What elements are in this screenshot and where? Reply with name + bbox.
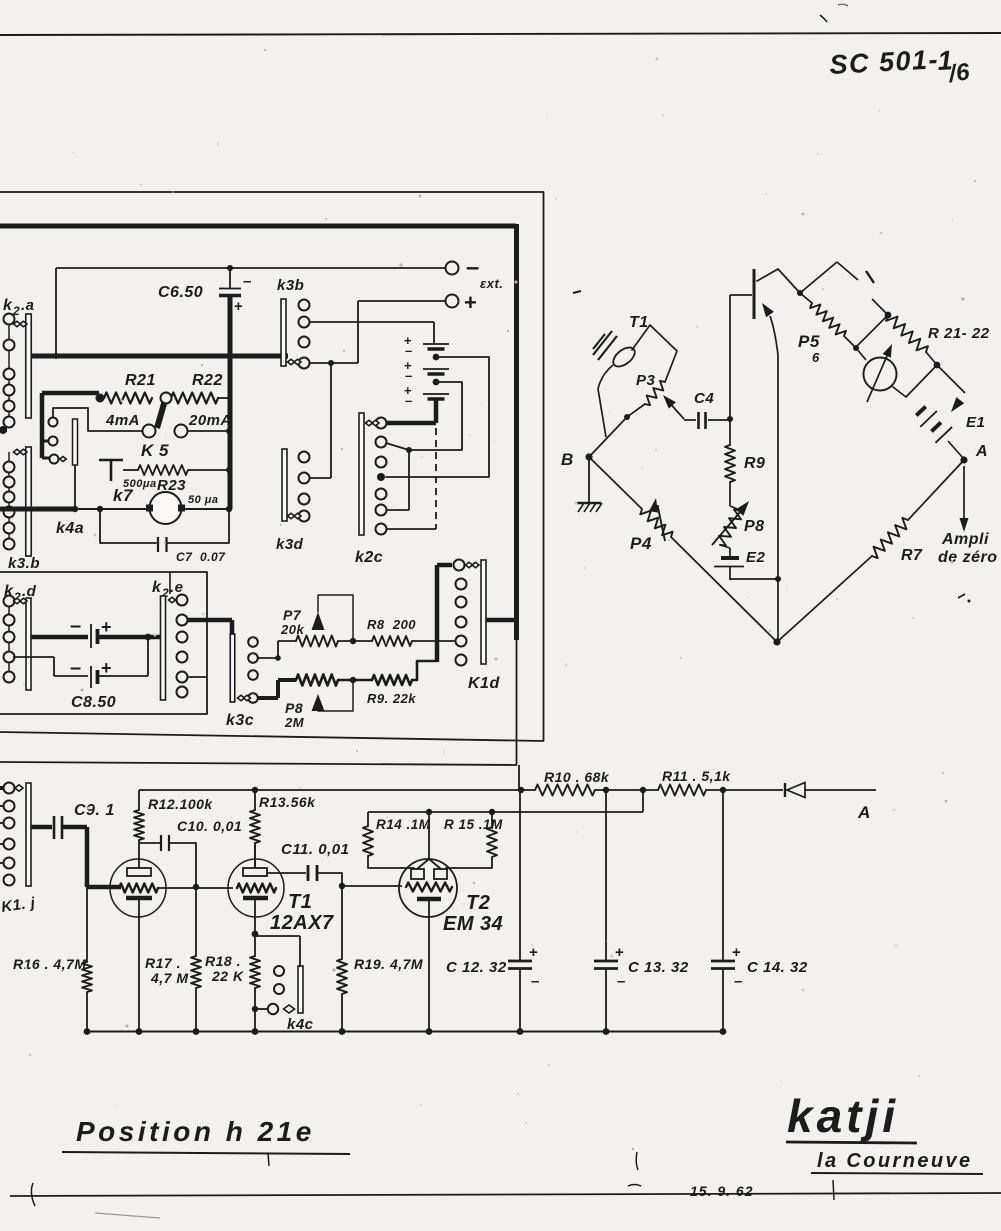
svg-text:–: – [531, 973, 540, 990]
svg-text:R13.56k: R13.56k [259, 794, 316, 810]
svg-text:20mA: 20mA [188, 412, 232, 429]
svg-text:R7: R7 [901, 547, 923, 564]
svg-text:+: + [234, 298, 243, 315]
svg-text:R14 .1M: R14 .1M [376, 817, 431, 832]
svg-text:20k: 20k [280, 622, 304, 637]
svg-text:R8 200: R8 200 [367, 617, 416, 632]
svg-text:C6.50: C6.50 [158, 284, 203, 301]
svg-text:R16 . 4,7M: R16 . 4,7M [13, 956, 86, 972]
svg-text:R10 . 68k: R10 . 68k [544, 769, 610, 785]
svg-text:k: k [3, 297, 13, 314]
svg-text:R21: R21 [125, 372, 156, 389]
svg-text:C 14. 32: C 14. 32 [747, 959, 808, 976]
svg-text:k: k [152, 579, 162, 596]
svg-text:C 12. 32: C 12. 32 [446, 959, 507, 976]
svg-text:P8: P8 [285, 700, 303, 716]
svg-text:A: A [857, 803, 871, 822]
svg-text:+: + [732, 944, 741, 961]
svg-text:R18 .: R18 . [205, 953, 241, 969]
svg-text:22 K: 22 K [211, 968, 244, 984]
svg-text:P7: P7 [283, 607, 302, 623]
svg-text:k2c: k2c [355, 549, 383, 566]
svg-text:C9. 1: C9. 1 [74, 802, 115, 819]
svg-text:C8.50: C8.50 [71, 694, 116, 711]
svg-text:P4: P4 [630, 534, 652, 553]
svg-text:4mA: 4mA [105, 412, 140, 429]
svg-text:–: – [243, 273, 252, 290]
svg-text:B: B [561, 450, 574, 469]
svg-text:–: – [734, 973, 743, 990]
svg-text:C11. 0,01: C11. 0,01 [281, 841, 349, 858]
svg-text:εxt.: εxt. [480, 276, 503, 291]
svg-text:E1: E1 [966, 414, 985, 431]
svg-text:/6: /6 [946, 58, 972, 88]
svg-text:R23: R23 [157, 477, 186, 494]
svg-text:EM 34: EM 34 [443, 913, 503, 935]
svg-text:k3c: k3c [226, 712, 254, 729]
svg-text:R12.100k: R12.100k [148, 796, 213, 812]
svg-text:+: + [464, 290, 477, 315]
svg-text:SC 501-: SC 501- [829, 44, 940, 80]
svg-text:.a: .a [21, 297, 35, 314]
svg-text:R9: R9 [744, 455, 765, 472]
svg-text:–: – [466, 254, 480, 281]
svg-text:K1d: K1d [468, 675, 500, 692]
svg-text:2M: 2M [284, 715, 305, 730]
svg-text:Ampli: Ampli [941, 531, 989, 548]
svg-text:C10. 0,01: C10. 0,01 [177, 818, 242, 834]
svg-text:R11 . 5,1k: R11 . 5,1k [662, 768, 731, 784]
svg-text:–: – [617, 973, 626, 990]
svg-text:P3: P3 [636, 372, 656, 389]
svg-text:R19. 4,7M: R19. 4,7M [354, 956, 423, 972]
svg-text:k3b: k3b [277, 277, 304, 294]
svg-text:katji: katji [787, 1090, 899, 1142]
svg-text:–: – [70, 615, 82, 637]
svg-text:k4c: k4c [287, 1016, 314, 1033]
svg-text:P5: P5 [798, 332, 820, 351]
svg-text:C7 0.07: C7 0.07 [176, 550, 226, 564]
svg-text:50 μa: 50 μa [188, 494, 219, 506]
svg-text:R17 .: R17 . [145, 955, 181, 971]
svg-text:R 21- 22: R 21- 22 [928, 325, 990, 342]
svg-text:+: + [101, 658, 112, 678]
svg-text:+: + [529, 944, 538, 961]
svg-text:C4: C4 [694, 390, 714, 407]
svg-text:500μa: 500μa [123, 478, 157, 490]
svg-text:R 15 .1M: R 15 .1M [444, 817, 503, 832]
svg-text:+: + [615, 944, 624, 961]
svg-text:P8: P8 [744, 518, 765, 535]
svg-text:T1: T1 [629, 314, 649, 331]
svg-text:12AX7: 12AX7 [270, 912, 334, 934]
svg-text:K 5: K 5 [141, 441, 169, 460]
svg-text:R9. 22k: R9. 22k [367, 691, 416, 706]
svg-text:C 13. 32: C 13. 32 [628, 959, 689, 976]
svg-text:de zéro: de zéro [938, 549, 998, 566]
svg-text:4,7 M: 4,7 M [150, 970, 189, 986]
svg-text:E2: E2 [746, 549, 766, 566]
svg-text:R22: R22 [192, 372, 223, 389]
svg-text:T2: T2 [466, 892, 490, 914]
svg-text:k4a: k4a [56, 520, 84, 537]
svg-text:T1: T1 [288, 891, 312, 913]
svg-text:–: – [405, 368, 413, 383]
svg-text:Position h 21e: Position h 21e [76, 1116, 315, 1147]
svg-text:–: – [405, 343, 413, 358]
svg-text:+: + [101, 617, 112, 637]
svg-text:–: – [70, 657, 82, 679]
svg-text:A: A [975, 443, 988, 460]
svg-text:6: 6 [812, 350, 820, 365]
svg-text:–: – [405, 393, 413, 408]
svg-text:.e: .e [170, 579, 184, 596]
svg-text:k3.b: k3.b [8, 555, 40, 572]
svg-text:la Courneuve: la Courneuve [817, 1150, 973, 1172]
svg-text:k3d: k3d [276, 536, 304, 553]
svg-text:15. 9. 62: 15. 9. 62 [690, 1183, 754, 1199]
